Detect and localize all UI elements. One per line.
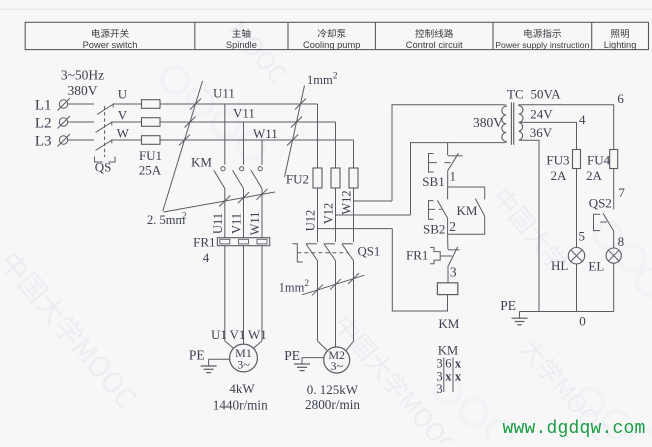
svg-text:FR1: FR1 [406,248,428,263]
switch QS1 pole blade [342,243,353,245]
svg-text:2. 5mm: 2. 5mm [147,213,185,227]
wire W11 drop [261,140,263,165]
lamp HL [568,248,584,264]
wire W12 to transformer primary top [392,105,505,201]
wire U segment QS to FU1 [114,103,142,105]
fuse FU1 element 3 [142,136,161,145]
svg-text:3~: 3~ [237,358,250,372]
svg-text:Cooling pump: Cooling pump [303,40,360,50]
motor M1 [230,344,258,372]
switch QS pole 1 blade [97,104,114,115]
svg-text:EL: EL [588,258,604,273]
svg-text:0: 0 [579,313,586,328]
contactor KM main contact [258,167,262,171]
svg-text:PE: PE [189,348,205,363]
svg-text:24V: 24V [530,107,553,122]
svg-text:KM: KM [457,203,478,218]
function header table [25,22,648,49]
svg-text:2: 2 [305,278,310,288]
wire L3 to QS [68,139,94,141]
wire M2 lead right [346,341,354,351]
svg-text:U11: U11 [211,213,225,234]
svg-text:W: W [117,126,130,141]
svg-text:U: U [118,87,128,102]
wire SB1 to node 1 [447,171,449,187]
header cell Power supply instruction [524,29,561,38]
svg-text:Control circuit: Control circuit [406,40,463,50]
wire L1 to QS [68,103,94,105]
wire PE to M2 [302,357,324,359]
wire W12 drop [353,188,355,242]
svg-text:1440r/min: 1440r/min [213,397,268,412]
wire secondary mid tap (net 4) [519,122,577,149]
svg-text:2A: 2A [551,168,568,183]
svg-text:380V: 380V [68,83,98,98]
wire drop to FU2-1 [317,104,319,168]
svg-text:x: x [445,370,452,384]
wire FU3 to HL [576,169,578,248]
wire size 2.5mm2 leader and slashes [163,81,203,211]
wire V segment QS to FU1 [112,121,142,123]
svg-text:3: 3 [436,356,442,370]
wire node 2 bar [448,233,485,235]
svg-text:2800r/min: 2800r/min [305,397,360,412]
svg-text:3~: 3~ [330,359,343,373]
svg-text:36V: 36V [530,125,553,140]
wire FR1 to M1 [261,246,263,341]
svg-text:SB1: SB1 [422,174,444,189]
ground PE rail [519,312,521,319]
wire M1 lead mid [243,341,245,344]
wire drop to FU2-3 [353,140,355,168]
wire U12 drop [317,188,319,242]
contactor KM main contact [240,167,244,171]
wire rail 0 [520,311,614,313]
transformer TC primary winding [502,105,506,142]
svg-text:L3: L3 [35,133,52,149]
ground PE M1 [208,359,210,366]
svg-text:1mm: 1mm [307,73,333,87]
fuse FU2 element 3 [349,168,358,188]
fuse FU1 element 2 [142,118,161,127]
FR1 heater element [257,239,267,244]
wire secondary bottom tap (net 0 return) [519,140,539,311]
svg-text:Power supply instruction: Power supply instruction [495,40,589,50]
wire size 1mm2 (top) leader and slashes [285,86,305,178]
svg-text:3~50Hz: 3~50Hz [61,67,104,82]
FR1 heater element [239,239,249,244]
node V12 tap wire [336,214,411,216]
svg-text:50VA: 50VA [531,87,562,102]
wire W11 horizontal [160,139,354,141]
pushbutton SB2 (NO start) [447,187,449,199]
wire FR1 to coil [447,266,449,283]
wire FR1 to M1 [243,246,245,341]
wire FU4 to QS2 [613,169,615,210]
switch QS linkage dashed [104,106,106,157]
wire to FR1 [261,189,263,238]
wire FR1 to M1 [224,246,226,341]
ground PE M2 [301,358,303,364]
svg-text:7: 7 [618,185,625,200]
svg-text:Lighting: Lighting [604,40,637,50]
svg-text:FU4: FU4 [587,153,611,168]
svg-text:25A: 25A [139,162,162,177]
svg-text:1mm: 1mm [279,281,305,295]
svg-text:6: 6 [617,91,624,106]
wire to FR1 [243,189,245,238]
pushbutton SB1 (NC stop) [448,155,463,157]
svg-text:KM: KM [191,155,212,170]
wire U12 return to KM coil [392,229,447,311]
svg-text:2: 2 [333,71,338,81]
svg-text:380V: 380V [473,115,503,130]
overload contact FR1 (NC) [447,234,449,249]
wire V12 to primary bottom rail [411,143,505,215]
svg-text:TC: TC [507,87,524,102]
svg-text:1: 1 [450,168,457,183]
wire secondary top (net 6) [519,105,614,150]
svg-text:2: 2 [182,211,187,221]
overload relay FR1 heater box [217,238,269,246]
svg-text:QS: QS [95,160,112,175]
svg-text:3: 3 [436,382,442,396]
svg-text:U11: U11 [213,86,235,101]
svg-text:V12: V12 [322,203,336,225]
wire HL to rail 0 [576,264,578,312]
svg-text:V1: V1 [230,327,246,342]
svg-text:8: 8 [618,234,625,249]
contactor KM auxiliary contact [484,187,486,199]
svg-text:www.dgdqw.com: www.dgdqw.com [503,419,646,439]
svg-text:V11: V11 [230,213,244,234]
svg-text:QS1: QS1 [358,245,381,259]
svg-text:FU3: FU3 [546,153,569,168]
node W12 tap wire [354,200,393,202]
transformer TC core [510,103,512,145]
svg-text:FR1: FR1 [193,235,215,250]
header cell Lighting [611,29,629,38]
svg-text:V11: V11 [233,106,255,121]
svg-text:4kW: 4kW [229,381,255,396]
wire W segment QS to FU1 [112,139,142,141]
wire M1 lead right [253,341,262,348]
wire U11 drop [224,104,226,165]
svg-text:HL: HL [551,258,568,273]
header cell Control circuit [415,29,453,38]
switch QS pole 3 blade [96,140,113,151]
svg-text:KM: KM [438,316,459,331]
fuse FU1 element 1 [142,100,161,109]
switch QS1 pole blade [306,243,317,245]
lamp EL [606,248,621,263]
wire QS1 to M2 pole1 [317,261,319,341]
svg-text:FU1: FU1 [139,148,162,163]
wire size 1mm2 (lower) leader and slashes [302,275,365,295]
wire PE to M1 [209,358,230,360]
wire to FR1 [224,189,226,238]
contactor KM main contact [221,167,225,171]
svg-text:PE: PE [284,348,300,363]
svg-text:U12: U12 [304,210,318,232]
svg-text:SB2: SB2 [423,221,445,236]
switch QS2 [603,213,614,231]
wire M2 lead mid [335,341,337,347]
wire QS2 to EL [613,231,615,248]
wire L2 to QS [68,121,94,123]
header cell Cooling pump [318,29,346,38]
wire drop to FU2-2 [335,122,337,168]
svg-text:W12: W12 [340,190,354,214]
svg-text:Power switch: Power switch [83,40,138,50]
wire QS1 to M2 pole2 [335,261,337,341]
svg-text:FU2: FU2 [286,172,309,187]
wire SB1 branch drop [447,143,449,155]
svg-text:W11: W11 [248,212,262,236]
svg-text:L2: L2 [35,115,52,131]
node U12 tap wire [318,228,393,230]
wire V11 drop [243,122,245,165]
wire EL to rail 0 [613,263,615,311]
header cell Spindle [232,29,250,38]
fuse FU2 element 1 [313,168,322,188]
svg-text:Spindle: Spindle [226,40,257,50]
svg-text:2A: 2A [586,168,603,183]
switch QS handle [95,157,116,163]
svg-text:4: 4 [203,250,210,265]
fuse FU3 [573,150,581,169]
fuse FU4 [610,150,618,169]
svg-text:x: x [455,370,462,384]
fuse FU2 element 2 [331,168,340,188]
svg-text:2: 2 [449,219,456,234]
svg-text:W1: W1 [248,327,267,342]
wire V11 horizontal [160,121,336,123]
svg-text:PE: PE [500,298,516,313]
svg-text:0. 125kW: 0. 125kW [307,382,359,397]
header cell Power switch [92,29,129,38]
FR1 heater element [220,239,230,244]
svg-text:5: 5 [579,228,586,243]
switch QS1 linkage dashed [297,252,348,254]
svg-text:x: x [455,356,462,370]
svg-text:QS2: QS2 [589,195,612,210]
svg-text:3: 3 [450,264,457,279]
svg-text:U1: U1 [211,327,227,342]
contactor coil KM [437,283,457,295]
wire QS1 to M2 pole3 [353,261,355,341]
wire M1 lead left [225,341,234,348]
transformer TC secondary winding [519,105,523,140]
svg-text:6: 6 [445,356,451,370]
svg-text:L1: L1 [35,97,52,113]
svg-text:KM: KM [438,343,458,357]
switch QS1 operator bracket [293,244,303,262]
wire V12 drop [335,188,337,242]
switch QS pole 2 blade [96,122,113,133]
wire U11 horizontal [160,103,318,105]
svg-text:V: V [118,107,128,122]
motor M2 [324,347,350,373]
wire node1 to KM aux [448,186,485,188]
switch QS1 pole blade [324,243,335,245]
wire M2 lead left [318,341,328,351]
svg-text:4: 4 [579,112,586,127]
svg-text:W11: W11 [253,126,278,141]
